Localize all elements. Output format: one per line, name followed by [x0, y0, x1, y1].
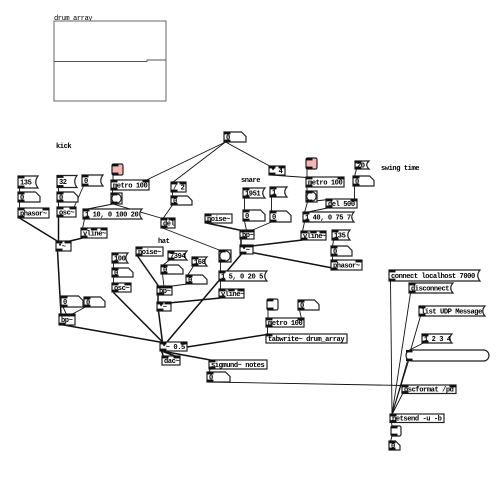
svg-text:32: 32	[59, 179, 67, 187]
op metro 100 record	[266, 318, 304, 328]
svg-text:osc~: osc~	[59, 209, 74, 217]
message disconnect	[409, 283, 453, 293]
op osc~ kick	[57, 207, 76, 217]
op del	[161, 218, 175, 228]
wire netsend to toggle	[391, 422, 394, 427]
svg-text:netsend -u -b: netsend -u -b	[392, 416, 442, 424]
toggle snare	[306, 158, 317, 169]
svg-text:*~ 0.5: *~ 0.5	[162, 344, 185, 352]
svg-text:osc~: osc~	[114, 285, 129, 293]
message 1 snare	[270, 187, 287, 197]
number 0 snare phasor freq	[331, 246, 352, 256]
wire message 1 5 to vline~ hat	[220, 281, 222, 290]
wire message 1951 to number 0	[244, 198, 246, 211]
svg-text:0: 0	[209, 374, 213, 382]
svg-text:del 500: del 500	[328, 201, 355, 209]
wire number 0 to bp~ snare middle inlet	[245, 221, 247, 231]
svg-text:0: 0	[272, 214, 276, 222]
svg-text:20: 20	[357, 162, 365, 170]
wire *~ kick to bp~ kick	[58, 251, 62, 315]
op sigmund~ notes	[209, 360, 267, 370]
op del 500	[326, 199, 357, 209]
svg-text:0: 0	[391, 443, 395, 451]
wire clock 0 to * 4	[226, 142, 271, 167]
svg-text:0: 0	[86, 299, 90, 307]
wire *~ 0.5 to dac~ left	[162, 351, 164, 357]
wire toggle snare to metro 100 snare	[306, 169, 308, 178]
svg-text:168: 168	[194, 259, 206, 267]
svg-text:disconnect: disconnect	[411, 285, 449, 293]
wire pill message to netsend	[392, 361, 409, 415]
bang snare	[306, 191, 317, 202]
op / 2	[171, 182, 186, 192]
svg-text:noise~: noise~	[138, 249, 161, 257]
svg-text:vline~: vline~	[83, 230, 106, 238]
op netsend -u -b	[390, 414, 444, 424]
wire number 0 to phasor~ snare	[332, 256, 334, 261]
wire bp~ kick to *~ 0.5	[61, 325, 163, 343]
wire bang snare to message 1 40	[305, 202, 308, 213]
svg-text:0: 0	[188, 277, 192, 285]
wire message 1 to number 0	[271, 197, 273, 212]
op dac~	[162, 356, 180, 366]
wire message 0 to osc~ kick right inlet	[74, 186, 84, 208]
wire toggle kick to metro 100 kick	[112, 175, 114, 181]
wire message 1 40 to vline~ snare	[303, 222, 305, 232]
op noise~ hat	[136, 247, 163, 257]
number 0 half clock	[171, 196, 192, 206]
wire number 0 to del	[163, 205, 173, 219]
svg-text:100: 100	[114, 255, 126, 263]
wire bang kick to message 1 10	[85, 204, 113, 210]
svg-text:*~: *~	[159, 304, 167, 312]
wire vline~ hat to *~ hat right	[169, 298, 221, 303]
wire *~ 0.5 to sigmund~	[162, 351, 211, 360]
svg-text:noise~: noise~	[207, 216, 230, 224]
wire metro 100 osc to tabwrite~	[267, 327, 269, 335]
wire toggle to number 0	[391, 436, 393, 442]
op *~ 0.5	[160, 342, 187, 352]
svg-text:bp~: bp~	[159, 288, 171, 296]
wire message 100 to number 0 hat	[113, 263, 115, 269]
wire noise~ snare to bp~ snare	[207, 223, 242, 231]
message 1951 snare	[243, 188, 265, 198]
svg-text:connect localhost 7000: connect localhost 7000	[391, 273, 475, 281]
wire message connect to netsend	[391, 281, 393, 415]
wire osc~ hat to *~ 0.5	[114, 293, 164, 343]
op oscformat /pd	[402, 385, 456, 395]
wire message 1 10 to vline~ kick	[83, 219, 85, 229]
op vline~ kick	[81, 228, 107, 238]
number 0 hat bp freq	[161, 265, 183, 275]
svg-text:swing time: swing time	[381, 165, 419, 173]
message connect localhost 7000	[389, 270, 480, 281]
message 0 kick	[82, 175, 103, 186]
svg-text:dac~: dac~	[164, 358, 179, 366]
svg-text:metro 100: metro 100	[308, 179, 342, 187]
svg-text:vline~: vline~	[303, 233, 326, 241]
array drum_array frame	[54, 21, 166, 101]
op *~ kick	[56, 241, 71, 251]
op bp~ hat	[157, 286, 172, 296]
wire message 20 to number 0 swing	[355, 169, 357, 177]
wire clock 0 to metro 100 kick right inlet	[146, 142, 226, 181]
svg-text:oscformat /pd: oscformat /pd	[404, 387, 454, 395]
svg-text:phasor~: phasor~	[333, 262, 360, 270]
message pill empty	[406, 350, 489, 361]
svg-text:list UDP Message: list UDP Message	[421, 308, 482, 316]
svg-text:phasor~: phasor~	[20, 210, 47, 218]
message 1 40, 0 75 7	[303, 212, 354, 222]
wire number 0 to osc~ kick	[58, 202, 60, 208]
number 0 swing	[353, 176, 374, 186]
svg-text:1 5, 0 20 5: 1 5, 0 20 5	[221, 273, 263, 281]
svg-text:*~: *~	[242, 247, 250, 255]
wire vline~ kick to *~ kick right	[68, 238, 83, 242]
message 168 hat	[192, 257, 207, 267]
wire *~ hat to *~ 0.5	[159, 311, 163, 343]
svg-text:bp~: bp~	[61, 317, 73, 325]
number 0 netsend	[389, 441, 400, 451]
wire phasor~ kick to *~ kick left	[20, 218, 59, 242]
op noise~ snare	[205, 214, 232, 224]
op vline~ hat	[219, 289, 244, 299]
wire metro 100 snare to bang snare	[306, 187, 308, 192]
wire message 135 to number 0 kick	[19, 188, 21, 193]
svg-text:7394: 7394	[170, 253, 186, 261]
svg-text:0: 0	[163, 267, 167, 275]
svg-text:vline~: vline~	[221, 291, 244, 299]
toggle kick	[112, 164, 123, 175]
message list UDP Message	[419, 306, 485, 316]
toggle record	[267, 299, 278, 310]
svg-text:135: 135	[334, 232, 346, 240]
message 1 2 3 4	[422, 334, 452, 344]
svg-text:metro 100: metro 100	[113, 182, 147, 190]
svg-text:0: 0	[59, 194, 63, 202]
wire message 168 to number 0	[188, 266, 194, 276]
svg-text:0: 0	[63, 299, 67, 307]
wire oscformat to netsend	[392, 393, 403, 415]
wire bang kick to del	[113, 204, 163, 219]
message 32 kick	[57, 176, 77, 188]
op *~ snare	[240, 245, 253, 255]
wire *~ 0.5 to dac~ right	[162, 351, 177, 357]
message 1 10, 0 100 20	[83, 209, 142, 219]
op bp~ kick	[59, 314, 75, 325]
wire metro 100 kick to bang kick	[112, 190, 114, 194]
op tabwrite~ drum_array	[266, 334, 347, 344]
op *~ hat	[157, 302, 171, 312]
svg-text:0: 0	[173, 198, 177, 206]
number 0 metro period	[298, 300, 319, 310]
op bp~ snare	[240, 230, 254, 240]
op metro 100 kick	[111, 180, 149, 190]
wire message 7394 to number 0	[163, 260, 170, 266]
wire bp~ hat to *~ hat	[157, 295, 159, 303]
message 1 5, 0 20 5	[219, 271, 267, 281]
wire del 500 to message 1 40	[306, 208, 328, 213]
svg-text:/ 2: / 2	[173, 184, 185, 192]
wire number 0 to bp~ hat right inlet	[169, 284, 188, 287]
wire number 0 to osc~ hat	[113, 277, 115, 284]
wire number 0 to bp~ snare right inlet	[252, 222, 272, 231]
wire number 0 kick to bp~ middle inlet	[63, 307, 67, 315]
number 0 sigmund	[207, 372, 230, 382]
svg-text:*~: *~	[58, 243, 66, 251]
wire noise~ hat to bp~ hat	[138, 256, 159, 286]
message 100 hat	[112, 253, 128, 263]
number 0 snare bp freq	[243, 210, 265, 221]
svg-text:tabwrite~ drum_array: tabwrite~ drum_array	[268, 336, 345, 344]
svg-text:bp~: bp~	[242, 232, 254, 240]
svg-text:* 4: * 4	[271, 168, 284, 176]
wire number 0 swing to del 500 right inlet	[354, 186, 356, 200]
svg-text:0: 0	[114, 270, 118, 278]
svg-text:snare: snare	[241, 177, 260, 185]
bang hat	[219, 250, 231, 262]
svg-text:del: del	[163, 220, 175, 228]
op vline~ snare	[301, 231, 326, 241]
wire / 2 to number 0	[172, 192, 174, 197]
op metro 100 snare	[306, 177, 344, 187]
svg-text:0: 0	[20, 194, 24, 202]
wire bp~ snare to *~ snare	[240, 239, 242, 246]
svg-text:0: 0	[226, 134, 230, 142]
svg-text:1 40, 0 75 7: 1 40, 0 75 7	[305, 214, 351, 222]
message 135 snare	[332, 230, 350, 240]
svg-text:135: 135	[20, 179, 32, 187]
wire vline~ snare to *~ snare right	[252, 240, 303, 246]
wire *~ 0.5 to tabwrite~	[162, 335, 268, 352]
svg-text:1: 1	[272, 189, 276, 197]
wire number 0 kick to bp~ right inlet	[72, 307, 86, 315]
op phasor~ kick	[18, 208, 49, 218]
svg-text:1 2 3 4: 1 2 3 4	[424, 336, 452, 344]
wire del to bang hat	[163, 228, 221, 251]
wire message 32 to number 0 kick2	[58, 187, 60, 193]
wire phasor~ snare to *~ snare right inlet	[252, 253, 333, 269]
wire sigmund~ to number 0	[209, 369, 211, 373]
wire osc~ kick to *~ kick left	[58, 217, 60, 242]
svg-text:sigmund~ notes: sigmund~ notes	[211, 362, 264, 370]
wire *~ snare to *~ 0.5	[167, 254, 242, 343]
bang kick	[111, 193, 122, 204]
wire number 0 to metro 100 osc right inlet	[300, 310, 302, 319]
message 7394 hat	[168, 251, 187, 261]
number 0 kick freq	[18, 192, 40, 202]
wire message list UDP to netsend	[392, 316, 421, 415]
op phasor~ snare	[331, 260, 362, 270]
svg-text:0: 0	[355, 178, 359, 186]
svg-text:kick: kick	[56, 143, 72, 151]
message 20 swing	[355, 161, 369, 170]
number 0 hat bp q	[186, 275, 207, 285]
svg-text:metro 100: metro 100	[268, 320, 302, 328]
number 0 bp q kick	[84, 297, 105, 307]
op * 4	[269, 166, 285, 176]
wire number 0 to phasor~ kick	[19, 202, 21, 209]
svg-text:0: 0	[333, 248, 337, 256]
number 0 kick osc freq	[57, 192, 78, 202]
wire message 135 snare to number 0	[333, 240, 334, 247]
number 0 clock	[224, 132, 246, 142]
svg-text:hat: hat	[158, 238, 170, 246]
number 0 snare bp q	[270, 211, 291, 222]
wire message disconnect to netsend	[392, 293, 411, 415]
svg-text:1 10, 0 100 20: 1 10, 0 100 20	[85, 211, 138, 219]
wire number 0 to bp~ hat middle inlet	[163, 274, 165, 287]
wire bang hat to message 1 5	[220, 262, 222, 272]
wire bang snare to del 500	[308, 200, 329, 203]
toggle connected	[391, 426, 401, 436]
array drum_array trace	[54, 60, 166, 62]
wire toggle osc to metro 100 osc	[267, 310, 269, 319]
wire message 1 2 3 4 to pill message	[409, 343, 424, 351]
wire number 0 to oscformat	[209, 382, 404, 386]
svg-text:0: 0	[84, 178, 88, 186]
svg-text:0: 0	[300, 302, 304, 310]
svg-text:0: 0	[245, 213, 249, 221]
svg-text:1951: 1951	[245, 190, 260, 198]
number 0 hat osc freq	[112, 268, 133, 278]
op osc~ hat	[112, 283, 131, 293]
wire clock 0 to / 2	[173, 142, 226, 183]
wire * 4 to metro 100 snare	[271, 175, 308, 178]
number 0 bp freq kick	[61, 296, 83, 307]
message 135 kick	[18, 176, 38, 188]
